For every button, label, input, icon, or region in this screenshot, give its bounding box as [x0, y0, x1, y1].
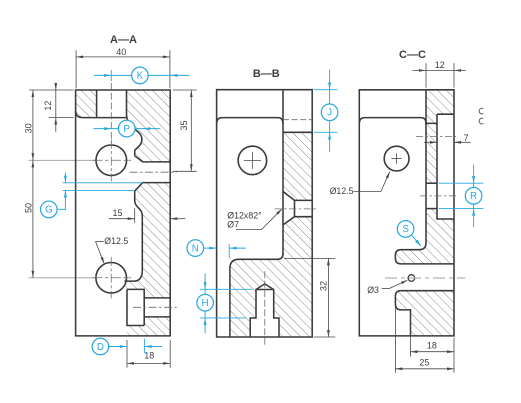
svg-text:B—B: B—B: [253, 68, 280, 80]
svg-text:G: G: [45, 205, 53, 216]
svg-text:40: 40: [116, 47, 126, 57]
svg-text:50: 50: [23, 203, 33, 213]
svg-text:30: 30: [23, 123, 33, 133]
svg-text:H: H: [202, 298, 209, 309]
svg-text:18: 18: [427, 340, 437, 350]
svg-text:J: J: [327, 108, 332, 119]
svg-text:15: 15: [112, 208, 122, 218]
svg-text:A—A: A—A: [110, 34, 137, 46]
svg-text:7: 7: [463, 133, 468, 143]
svg-text:R: R: [470, 191, 477, 202]
svg-text:25: 25: [419, 357, 429, 367]
svg-text:18: 18: [144, 351, 154, 361]
svg-text:12: 12: [43, 101, 53, 111]
svg-text:P: P: [123, 124, 130, 135]
svg-text:Ø3: Ø3: [367, 285, 379, 295]
svg-text:K: K: [137, 71, 144, 82]
svg-text:D: D: [97, 342, 104, 353]
svg-text:Ø7: Ø7: [227, 219, 239, 229]
svg-text:Ø12.5: Ø12.5: [104, 236, 128, 246]
svg-text:35: 35: [179, 120, 189, 130]
svg-text:Ø12.5: Ø12.5: [330, 186, 354, 196]
svg-text:12: 12: [435, 60, 445, 70]
svg-text:C—C: C—C: [399, 49, 426, 61]
svg-text:S: S: [402, 224, 409, 235]
svg-text:32: 32: [319, 281, 329, 291]
svg-text:N: N: [192, 243, 199, 254]
